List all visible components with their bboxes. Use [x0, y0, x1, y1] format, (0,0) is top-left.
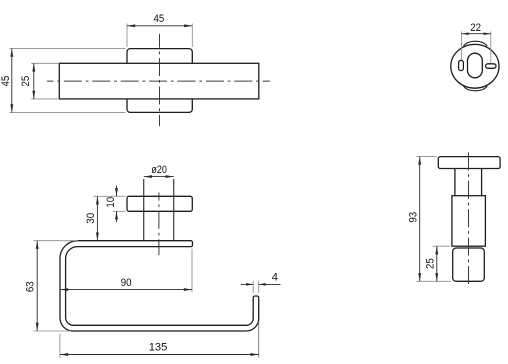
front view: wall plate flange — [127, 196, 192, 211]
svg-text:93: 93 — [408, 212, 420, 223]
front view: post stem left edge — [143, 179, 145, 241]
dimension 10 (flange thickness) — [105, 186, 126, 222]
dimension 135 (overall width) — [60, 322, 259, 358]
top view: horizontal centerline — [47, 80, 270, 82]
dimension 45 (top, block width) — [127, 13, 192, 47]
dimension 25 (bar width) — [20, 63, 58, 99]
svg-text:30: 30 — [85, 213, 97, 224]
wall plate: left mounting slot — [459, 60, 464, 70]
svg-text:135: 135 — [149, 342, 168, 354]
front view: post stem right edge — [173, 179, 175, 241]
dimension 22 (slot spacing) — [462, 22, 491, 63]
top view: vertical centerline — [159, 34, 161, 127]
side view: stem — [455, 169, 482, 196]
wall plate: right mounting slot — [486, 64, 496, 69]
svg-text:45: 45 — [0, 76, 12, 87]
svg-text:45: 45 — [154, 13, 165, 25]
dimension 30 (plate to bar) — [85, 196, 113, 240]
dimension 63 (holder height) — [24, 241, 78, 331]
wall plate: center oval hole — [468, 53, 483, 78]
svg-text:22: 22 — [470, 22, 481, 34]
svg-text:63: 63 — [24, 281, 36, 292]
svg-text:25: 25 — [425, 258, 437, 269]
wall plate: round cover — [451, 41, 499, 91]
front view: vertical centerline — [158, 193, 160, 256]
front view: holder body outline — [60, 241, 259, 331]
svg-text:ø20: ø20 — [151, 164, 166, 176]
dimension 45 (left, block height) — [0, 49, 125, 113]
side view: vertical centerline — [468, 152, 470, 286]
svg-text:90: 90 — [121, 277, 132, 289]
dimension 25 (end block height) — [425, 246, 451, 281]
side view: cap — [438, 157, 500, 169]
dimension 4 (bar thickness) — [241, 271, 281, 293]
dimension 93 (overall height) — [408, 157, 451, 282]
svg-text:4: 4 — [272, 271, 278, 283]
side view: body — [452, 196, 486, 247]
top view: wall plate block — [127, 49, 192, 113]
dimension 90 (inner width) — [60, 249, 192, 293]
dimension diameter 20 (post) — [144, 164, 174, 178]
top view: bar — [59, 63, 258, 99]
side view: end block — [453, 248, 485, 281]
svg-text:10: 10 — [105, 197, 117, 208]
svg-text:25: 25 — [20, 76, 32, 87]
